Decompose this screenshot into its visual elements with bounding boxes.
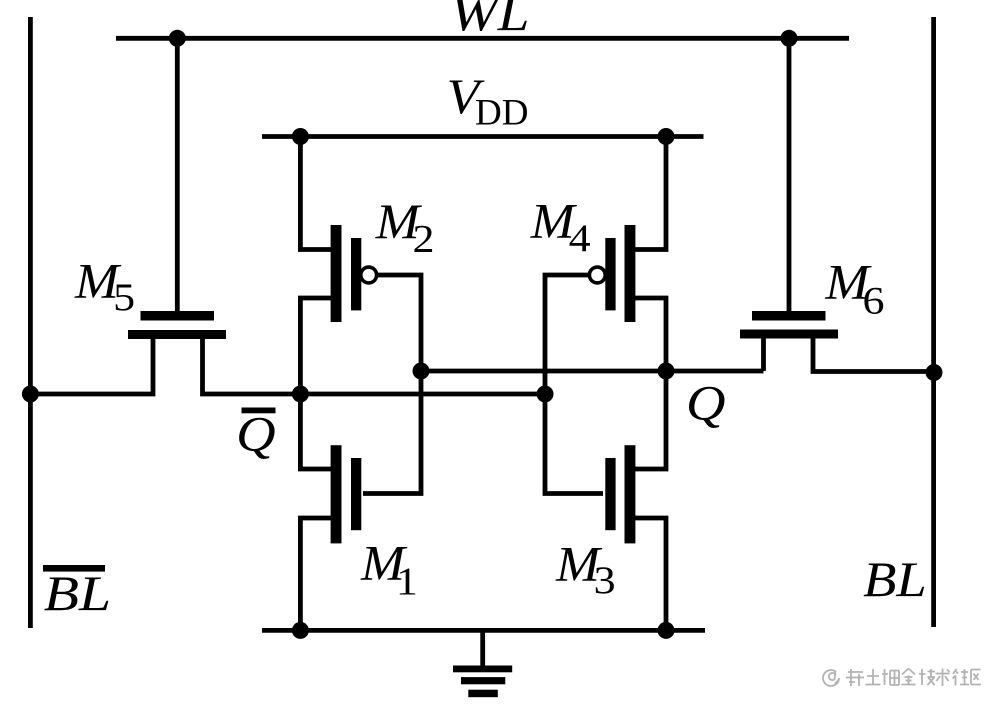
wire M1 source to ground rail [300,518,333,630]
ground bar 1 [453,666,512,673]
junction dot WL left [169,30,186,47]
wire M6 drain to BL [813,335,934,372]
transistor M5 gate bar [141,311,215,321]
junction dot Qbar wire right end [537,386,554,403]
ground bar 3 [468,690,498,698]
junction dot node Q column [658,363,675,380]
char jin [902,669,916,685]
transistor M6 channel bar [740,330,838,339]
transistor M5 channel bar [128,330,226,339]
svg-text:Q: Q [236,406,276,462]
svg-text:4: 4 [569,217,591,260]
svg-text:2: 2 [413,217,435,260]
svg-text:BL: BL [863,551,927,607]
overline of Qbar label [242,408,276,414]
svg-text:WL: WL [450,0,529,41]
wire BLbar vertical rail [28,17,33,628]
junction dot node Qbar column [292,386,309,403]
wire WL horizontal rail [116,36,849,41]
junction dot BLbar [22,386,39,403]
overline of BLbar label [43,565,105,572]
svg-text:Q: Q [686,375,726,431]
svg-text:DD: DD [475,93,528,134]
wire M5 drain to node Qbar [203,335,548,394]
transistor M1 gate bar [351,458,361,530]
wire BL vertical rail [931,17,936,627]
wire M5 gate stem from WL [175,38,180,313]
svg-text:6: 6 [863,280,885,323]
char jue [882,669,899,685]
svg-text:1: 1 [396,560,418,603]
wire VDD drop to M4 source [633,137,666,250]
wire ground rail (bottom) [262,628,705,633]
junction dot VDD left [292,128,309,145]
wire VDD horizontal rail [262,134,704,139]
junction dot Q wire left end [413,363,430,380]
wire M4 drain to M3 drain (node Q column) [633,298,666,469]
wire node Q horizontal to M6 source [421,369,764,374]
junction dot VDD right [658,128,675,145]
wire M4 gate to node Qbar (cross-coupling right) [545,275,603,494]
char she [953,669,970,686]
char tu [866,669,881,685]
transistor M2 channel bar [331,225,342,322]
transistor M1 channel bar [331,445,342,543]
char xi [846,669,864,686]
junction dot WL right [781,30,798,47]
svg-text:5: 5 [113,276,135,319]
pmos bubble M4 [589,267,605,283]
wire M3 source to ground rail [633,518,666,630]
junction dot ground rail left [292,622,309,639]
transistor M3 channel bar [625,445,636,543]
transistor M4 gate bar [605,238,615,310]
wire M6 gate stem from WL [787,38,792,313]
ground bar 2 [461,677,505,684]
watermark @juejin community [823,669,981,687]
wire M6 left leg [761,335,766,371]
junction dot ground rail right [658,622,675,639]
junction dot BL [926,364,943,381]
transistor M4 channel bar [625,225,636,322]
transistor M3 gate bar [605,458,615,530]
char qu [971,670,981,685]
svg-text:3: 3 [594,559,616,602]
wire M2 drain to M1 drain (node Qbar column) [300,298,333,469]
transistor M6 gate bar [752,311,826,321]
char shu [936,669,950,687]
svg-text:BL: BL [44,565,111,621]
transistor M2 gate bar [351,238,361,310]
wire M2 gate to node Q (cross-coupling left) [363,275,421,494]
wire BLbar to M5 source (Qbar wire left) [30,335,153,394]
char ji [919,669,935,685]
wire VDD drop to M2 source [300,137,333,250]
pmos bubble M2 [361,267,377,283]
ground stem [480,630,485,667]
